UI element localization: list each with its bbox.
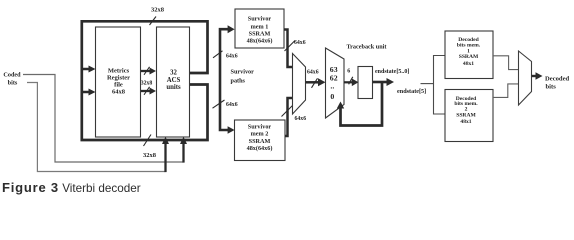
svg-text:64x6: 64x6 <box>226 53 238 59</box>
svg-text:endstate[5]: endstate[5] <box>397 88 426 95</box>
wire register output endstate[5..0] <box>373 69 410 86</box>
svg-text:32: 32 <box>170 69 177 76</box>
wire Decoded mem 2 to output mux <box>493 84 519 98</box>
svg-text:ACS: ACS <box>167 77 181 84</box>
svg-text:paths: paths <box>231 78 246 85</box>
wire coded bit 0 to ACS <box>23 75 187 163</box>
mux decoded bits output select <box>519 51 532 105</box>
svg-text:Survivor: Survivor <box>231 69 255 76</box>
block Survivor mem 1 SSRAM <box>235 9 284 48</box>
register endstate <box>358 67 373 99</box>
mux survivor memory select <box>293 54 306 115</box>
wire coded bit 1 to ACS <box>27 83 169 173</box>
label 64x6 survivor bus upper <box>213 51 238 60</box>
svg-text:SSRAM: SSRAM <box>249 138 271 145</box>
svg-text:endstate[5..0]: endstate[5..0] <box>375 69 409 75</box>
label 32x8 top bus <box>150 7 165 25</box>
wire feedback to selector <box>337 82 382 126</box>
wire branch to decoded bits memories <box>434 56 446 115</box>
svg-text:0: 0 <box>330 92 334 101</box>
svg-text:Traceback unit: Traceback unit <box>347 43 388 50</box>
svg-text:48x1: 48x1 <box>460 119 471 125</box>
svg-text:48x1: 48x1 <box>463 61 474 67</box>
svg-text:Coded: Coded <box>3 71 21 78</box>
wire Survivor mem 2 output to mux (64x6) <box>282 98 307 136</box>
svg-text:32x8: 32x8 <box>141 80 153 86</box>
label 32x8 bottom bus <box>143 135 157 159</box>
svg-text:file: file <box>114 81 123 88</box>
svg-text:bits: bits <box>546 84 557 91</box>
svg-text:SSRAM: SSRAM <box>249 30 271 37</box>
svg-text:Decoded: Decoded <box>545 76 570 83</box>
wire endstate[5] to decoded memories <box>397 84 434 95</box>
node Coded bits input label <box>3 71 21 86</box>
svg-text:Survivor: Survivor <box>248 15 272 22</box>
svg-text:64x6: 64x6 <box>307 70 319 76</box>
wire arrow loop into Metrics Register (upper) <box>82 66 96 73</box>
svg-text:Metrics: Metrics <box>108 67 130 74</box>
wire arrow loop into Metrics Register (lower) <box>82 89 96 96</box>
wire arrow Decoded bits output <box>532 72 570 90</box>
svg-text:32x8: 32x8 <box>151 7 165 14</box>
svg-text:48x(64x6): 48x(64x6) <box>247 145 273 152</box>
wire Survivor mem 1 output to mux (64x6) <box>284 30 306 68</box>
svg-text:6: 6 <box>347 68 350 74</box>
block Survivor mem 2 SSRAM <box>235 120 286 161</box>
wire arrow Metrics to ACS (lower, 32x8) <box>141 87 156 95</box>
traceback state selector 63..0 <box>326 48 345 118</box>
svg-text:32x8: 32x8 <box>143 152 157 159</box>
wire state metric feedback loop (32x8 bus) <box>82 21 208 140</box>
label Survivor paths <box>231 69 255 85</box>
block Decoded bits mem 2 SSRAM 48x1 <box>445 90 493 142</box>
wire survivor path bus to survivor memories <box>220 25 235 134</box>
wire mux to traceback unit (64x6) <box>306 70 326 88</box>
svg-text:64x6: 64x6 <box>294 40 306 46</box>
block 32 ACS units <box>157 27 190 137</box>
svg-text:bits: bits <box>8 80 18 87</box>
svg-text:64x6: 64x6 <box>226 102 238 108</box>
wire selector to register (6) <box>344 68 359 86</box>
label 64x6 survivor bus lower <box>213 100 238 108</box>
block Metrics Register file 64x8 <box>96 27 141 137</box>
svg-text:SSRAM: SSRAM <box>456 112 476 118</box>
svg-text:..: .. <box>330 81 334 90</box>
caption Figure 3 Viterbi decoder <box>2 180 141 195</box>
svg-text:SSRAM: SSRAM <box>459 54 479 60</box>
svg-text:units: units <box>166 84 181 91</box>
svg-text:48x(64x6): 48x(64x6) <box>247 38 273 45</box>
wire arrow Metrics to ACS (upper, 32x8) <box>141 67 156 75</box>
block Decoded bits mem 1 SSRAM 48x1 <box>445 31 493 79</box>
wire Decoded mem 1 to output mux <box>493 56 519 70</box>
svg-text:mem 2: mem 2 <box>251 130 269 137</box>
svg-text:64x8: 64x8 <box>112 88 126 95</box>
svg-text:64x6: 64x6 <box>295 116 307 122</box>
